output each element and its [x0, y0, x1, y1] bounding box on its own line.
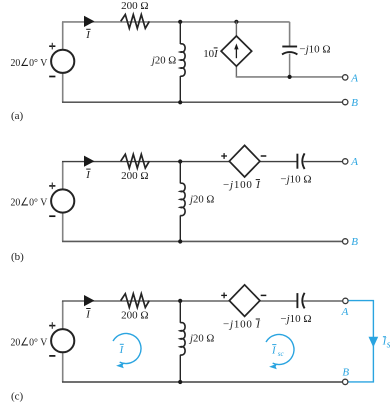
label -j100Ī (b) [223, 179, 261, 191]
svg-text:−j100 I: −j100 I [223, 318, 261, 330]
svg-text:I: I [271, 345, 277, 357]
svg-text:20∠0° V: 20∠0° V [11, 336, 48, 348]
voltage source 20∠0° V (a) [49, 43, 74, 77]
svg-text:200 Ω: 200 Ω [121, 309, 148, 321]
terminal A (c) [343, 298, 348, 303]
wire: (c) top rail [62, 301, 343, 329]
label - polarity (c) [261, 294, 267, 296]
terminal A (a) [343, 75, 348, 80]
label -j100Ī (c) [223, 318, 261, 330]
svg-text:I: I [85, 308, 91, 320]
label + polarity (c) [221, 293, 227, 299]
inductor j20 Ω (b) [180, 161, 185, 242]
wire: (c) short-circuit link A-B (blue) [349, 301, 374, 382]
svg-text:I: I [85, 169, 91, 181]
voltage source 20∠0° V (b) [49, 183, 74, 217]
voltage source 20∠0° V (c) [49, 322, 74, 356]
svg-text:j20 Ω: j20 Ω [150, 55, 176, 67]
node junction dot (a) bottom [178, 100, 182, 104]
label Ī (b) [85, 169, 91, 181]
svg-text:−j10 Ω: −j10 Ω [280, 313, 311, 325]
inductor j20 Ω (c) [180, 301, 185, 383]
current arrow Ī (a) [84, 16, 95, 27]
node junction dot (b) bottom [178, 239, 182, 243]
terminal B (a) [343, 99, 348, 104]
svg-text:200 Ω: 200 Ω [121, 0, 148, 12]
svg-text:B: B [342, 367, 349, 379]
label mesh Ī_sc (c) [271, 345, 285, 359]
wire: (a) node A rail [236, 54, 343, 77]
svg-text:B: B [351, 97, 358, 109]
node junction dot (a) top-right [234, 20, 238, 24]
capacitor -j10 Ω (c) [297, 293, 304, 309]
current arrow Ī (c) [84, 295, 95, 306]
svg-text:j20 Ω: j20 Ω [188, 193, 214, 205]
svg-text:B: B [351, 236, 358, 248]
svg-text:(c): (c) [11, 390, 24, 402]
node junction dot (a) top-left [178, 20, 182, 24]
label mesh Ī (c) [119, 344, 125, 356]
svg-text:10I: 10I [203, 48, 219, 60]
svg-text:200 Ω: 200 Ω [121, 170, 148, 182]
svg-text:−j10 Ω: −j10 Ω [280, 173, 311, 185]
svg-text:(b): (b) [11, 251, 24, 263]
label Ī (a) [85, 29, 91, 41]
svg-text:j20 Ω: j20 Ω [188, 333, 214, 345]
capacitor -j10 Ω (b) [297, 153, 304, 169]
terminal A (b) [343, 159, 348, 164]
mesh current Ī_sc (c) [266, 334, 294, 369]
svg-text:sc: sc [278, 350, 285, 358]
wire: (c) bottom rail B [62, 352, 343, 382]
wire: (a) top rail [62, 22, 290, 50]
capacitor -j10 Ω (a) [282, 47, 297, 55]
svg-text:A: A [350, 156, 358, 168]
dependent current source 10Ī (a) [221, 36, 252, 66]
inductor j20 Ω (a) [180, 21, 185, 102]
svg-text:−j10 Ω: −j10 Ω [299, 44, 330, 56]
resistor 200 Ω (b) [121, 154, 150, 168]
svg-text:20∠0° V: 20∠0° V [11, 57, 48, 69]
dependent voltage source -j100Ī (b) [229, 145, 260, 177]
svg-text:A: A [341, 306, 349, 318]
wire: (b) top rail [62, 162, 343, 190]
label + polarity (b) [221, 153, 227, 159]
label - polarity (b) [261, 155, 267, 157]
svg-text:(a): (a) [11, 110, 24, 122]
label 10Ī (a) [203, 48, 219, 60]
wire: (a) diamond top stub [235, 21, 237, 36]
mesh current Ī (c) [113, 333, 141, 368]
svg-text:−j100 I: −j100 I [223, 179, 261, 191]
label Ī_sc on link (c) [382, 336, 390, 351]
label Ī (c) [85, 308, 91, 320]
terminal B (c) [343, 379, 348, 384]
current arrow Ī_sc on link (c) [369, 337, 379, 348]
wire: (b) bottom rail B [62, 212, 343, 241]
terminal B (b) [343, 239, 348, 244]
node junction dot (c) top [178, 299, 182, 303]
resistor 200 Ω (a) [121, 15, 150, 29]
svg-text:A: A [350, 72, 358, 84]
dependent voltage source -j100Ī (c) [229, 285, 260, 317]
resistor 200 Ω (c) [121, 294, 150, 308]
svg-text:sc: sc [387, 339, 390, 351]
node junction dot (b) top [178, 159, 182, 163]
node junction dot (c) bottom [178, 380, 182, 384]
svg-text:I: I [119, 344, 125, 356]
node junction dot (a) on A rail [288, 75, 292, 79]
svg-text:20∠0° V: 20∠0° V [11, 197, 48, 209]
current arrow Ī (b) [84, 156, 95, 167]
svg-text:I: I [85, 29, 91, 41]
wire: (a) bottom rail B [62, 73, 343, 102]
